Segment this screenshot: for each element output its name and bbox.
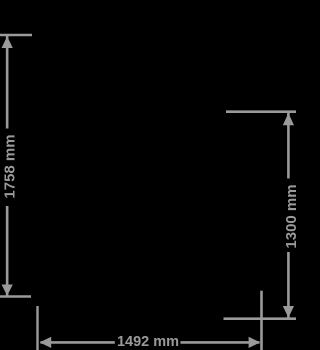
dimension height-left 1758mm vertical line lower segment <box>6 206 9 296</box>
dimension height-right 1300mm down arrowhead <box>283 306 294 318</box>
svg-text:1492 mm: 1492 mm <box>117 334 179 350</box>
dimension height-left 1758mm bottom extension tick <box>0 295 31 298</box>
svg-text:1300 mm: 1300 mm <box>283 184 296 248</box>
dimension height-right 1300mm up arrowhead <box>283 113 294 125</box>
svg-text:1758 mm: 1758 mm <box>1 134 18 198</box>
dimension height-right 1300mm bottom extension tick <box>224 317 297 320</box>
dimension width-bottom 1492mm horizontal line left segment <box>41 341 115 344</box>
dimension height-right 1300mm vertical line lower segment <box>287 252 290 318</box>
dimension height-right 1300mm top extension tick <box>226 110 296 113</box>
dimension height-left 1758mm vertical line upper segment <box>6 36 9 129</box>
dimension height-right 1300mm vertical line upper segment <box>287 112 290 178</box>
dimension height-left 1758mm up arrowhead <box>2 36 13 48</box>
dimension height-left 1758mm top extension tick <box>0 34 32 37</box>
dimension width-bottom 1492mm right extension line <box>260 291 263 350</box>
dimension width-bottom 1492mm left extension line <box>36 306 38 350</box>
dimension width-bottom 1492mm right arrowhead <box>249 337 261 348</box>
dimension height-left 1758mm down arrowhead <box>2 285 13 296</box>
dimension width-bottom 1492mm left arrowhead <box>40 337 52 348</box>
dimension width-bottom 1492mm horizontal line right segment <box>181 341 260 344</box>
